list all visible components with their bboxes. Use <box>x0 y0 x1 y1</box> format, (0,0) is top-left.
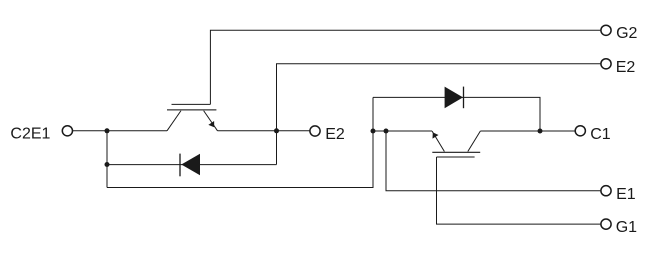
svg-text:E1: E1 <box>616 186 636 203</box>
svg-text:C2E1: C2E1 <box>10 125 50 142</box>
svg-text:G1: G1 <box>616 219 637 236</box>
svg-text:E2: E2 <box>325 126 345 143</box>
svg-text:E2: E2 <box>616 59 636 76</box>
svg-text:G2: G2 <box>616 25 637 42</box>
svg-text:C1: C1 <box>590 126 611 143</box>
